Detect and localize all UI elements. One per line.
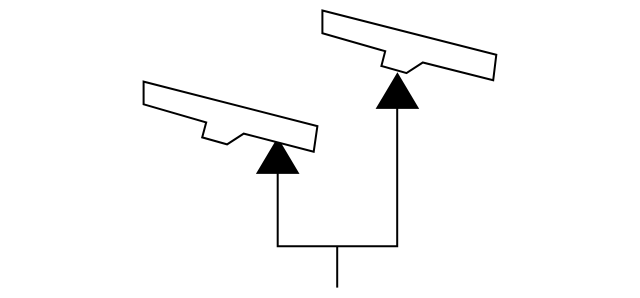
connector bracket wire	[278, 109, 398, 247]
arrow left	[256, 137, 300, 174]
leader stem wire	[336, 246, 338, 287]
upper notched bar outline	[322, 11, 496, 81]
lower notched bar outline	[144, 82, 318, 152]
arrow right	[376, 72, 420, 109]
